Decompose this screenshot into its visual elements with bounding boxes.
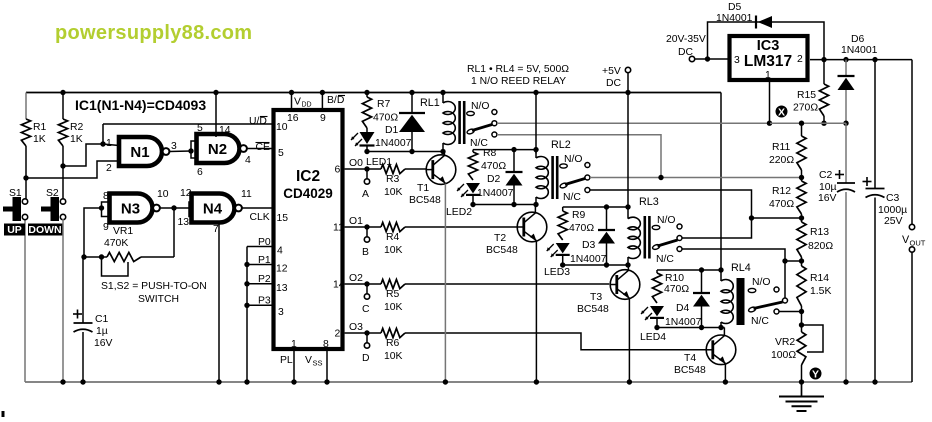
svg-text:470Ω: 470Ω: [569, 223, 594, 234]
stray mark bottom-left: [2, 411, 5, 417]
relay RL1 coil: [420, 93, 466, 152]
svg-text:5: 5: [278, 148, 284, 159]
svg-text:N/O: N/O: [752, 277, 770, 288]
relay RL4 contacts N/O N/C: [748, 277, 788, 327]
svg-text:N1: N1: [130, 144, 149, 161]
LED LED4: [640, 306, 666, 343]
svg-text:DD: DD: [302, 102, 312, 109]
svg-text:470Ω: 470Ω: [373, 113, 398, 124]
wire T1 collector to stage1 node: [443, 152, 445, 156]
svg-text:1 N/O REED RELAY: 1 N/O REED RELAY: [471, 76, 566, 87]
svg-text:N/O: N/O: [564, 154, 582, 165]
svg-text:2: 2: [106, 163, 112, 174]
wire S1 column to rail: [24, 219, 26, 382]
svg-text:1N4007: 1N4007: [375, 138, 412, 149]
svg-text:D1: D1: [385, 125, 399, 136]
svg-text:14: 14: [219, 125, 231, 136]
svg-text:13: 13: [276, 283, 288, 294]
pin 14 of N2 (IC1 VDD): [213, 90, 230, 137]
svg-text:11: 11: [333, 223, 344, 234]
svg-text:O3: O3: [349, 322, 363, 333]
svg-text:BC548: BC548: [409, 195, 441, 206]
wire T4 emitter to rail: [723, 364, 728, 385]
svg-text:2: 2: [797, 54, 803, 65]
resistor R9 470ohm: [558, 207, 594, 240]
svg-text:11: 11: [241, 189, 252, 200]
svg-text:DOWN: DOWN: [28, 224, 61, 236]
wire R5 to T3 base: [405, 283, 609, 285]
wire T2 emitter to rail: [534, 241, 539, 385]
wire +5V terminal feed to stage3 (RL3 top): [625, 93, 630, 219]
diode D5 1N4001: [708, 2, 825, 60]
svg-text:N/O: N/O: [471, 101, 489, 112]
relay RL1 contacts N/O N/C: [466, 101, 496, 149]
pins 5,6 bracket of N2: [188, 123, 203, 178]
wire RL4 N/C to R14/VR2 tap: [779, 311, 802, 313]
pin 4 of N2: [245, 155, 251, 166]
pin O2 14 of IC2 / terminal C / resistor R5: [333, 273, 405, 315]
wire VR1 right to N3 output node: [173, 208, 175, 257]
svg-text:BC548: BC548: [577, 304, 609, 315]
resistor R13 820ohm: [797, 218, 833, 264]
wire RL2 common to R11/R12 tap: [590, 175, 802, 180]
svg-text:SS: SS: [313, 359, 323, 368]
svg-text:R4: R4: [386, 232, 400, 243]
svg-text:C2: C2: [819, 170, 833, 181]
svg-text:IC3: IC3: [757, 38, 780, 54]
svg-text:IC2: IC2: [296, 168, 320, 185]
svg-text:T4: T4: [684, 353, 696, 364]
label RL1-RL4 relay note: [467, 64, 569, 87]
svg-text:470Ω: 470Ω: [664, 284, 689, 295]
wire stage4 bottom node: [657, 325, 725, 330]
svg-text:13: 13: [178, 217, 190, 228]
IC IC2 CD4029 box: [274, 110, 343, 349]
resistor R14 1.5K: [797, 261, 832, 314]
wire N4 output to IC2 CLK: [242, 207, 272, 209]
pin P2 13 of IC2: [244, 274, 287, 294]
svg-text:BC548: BC548: [674, 365, 706, 376]
svg-text:9: 9: [103, 222, 109, 233]
svg-text:R3: R3: [386, 174, 400, 185]
wire +5V rail right end to RL4 feed: [720, 93, 722, 271]
wire N1 pin1 to U/D line: [102, 124, 104, 144]
svg-text:LED4: LED4: [640, 332, 666, 343]
svg-text:C: C: [362, 304, 370, 315]
svg-text:R7: R7: [377, 99, 391, 110]
resistor R11 220ohm: [769, 123, 806, 180]
nand gate N4: [192, 194, 242, 223]
svg-text:powersupply88.com: powersupply88.com: [55, 22, 252, 44]
svg-text:6: 6: [197, 167, 203, 178]
svg-text:9: 9: [320, 113, 326, 124]
wire R3 to T1 base: [405, 168, 427, 170]
pin P3 3 of IC2: [244, 296, 284, 319]
resistor R2: [58, 119, 83, 146]
wire T1 emitter to rail: [443, 184, 448, 385]
svg-text:RL1 • RL4 = 5V, 500Ω: RL1 • RL4 = 5V, 500Ω: [467, 64, 569, 75]
svg-text:R15: R15: [797, 90, 816, 101]
svg-text:D4: D4: [676, 303, 690, 314]
wire left frame (R1 column top lead): [25, 93, 27, 120]
diode D2 1N4007: [477, 150, 523, 205]
svg-text:1K: 1K: [70, 134, 83, 145]
svg-text:O1: O1: [349, 216, 363, 227]
svg-text:R10: R10: [665, 273, 684, 284]
svg-text:4: 4: [245, 155, 251, 166]
svg-text:10K: 10K: [384, 245, 403, 256]
svg-text:10K: 10K: [384, 351, 403, 362]
diode D1 1N4007: [375, 93, 425, 152]
svg-text:1N4007: 1N4007: [665, 317, 702, 328]
wire stage3 top node: [563, 204, 628, 209]
svg-text:10µ: 10µ: [819, 182, 837, 193]
svg-text:VR1: VR1: [113, 226, 133, 237]
wire RL4 common up to R13/R14 tap: [784, 261, 786, 298]
transistor T3 BC548: [577, 270, 640, 315]
wire N1 output to N2 inputs: [169, 150, 191, 153]
svg-text:R2: R2: [70, 122, 84, 133]
svg-text:220Ω: 220Ω: [769, 155, 794, 166]
wire LED4 to stage4 node: [654, 319, 659, 330]
LED LED2: [446, 183, 480, 218]
svg-text:N2: N2: [208, 141, 227, 158]
svg-text:UP: UP: [7, 224, 22, 236]
svg-text:N4: N4: [203, 201, 223, 218]
wire T4 collector to stage4 node: [723, 328, 725, 336]
svg-text:A: A: [362, 189, 369, 200]
label IC1(N1-N4)=CD4093: [75, 97, 206, 113]
svg-text:N3: N3: [121, 201, 140, 218]
resistor R1: [21, 119, 46, 146]
svg-text:P1: P1: [258, 255, 271, 266]
wire LED1 to stage1 node: [364, 146, 369, 155]
svg-text:D5: D5: [728, 2, 742, 13]
pins 8,9 bracket of N3: [99, 191, 110, 233]
svg-text:RL4: RL4: [731, 262, 751, 274]
svg-text:C3: C3: [886, 193, 900, 204]
resistor R12 470ohm: [769, 178, 806, 221]
LED LED1: [351, 128, 392, 168]
resistor R15 270ohm: [793, 60, 829, 126]
svg-text:X: X: [778, 106, 785, 118]
wire P-pins bracket to rail: [244, 247, 249, 385]
capacitor C3 1000u 25V: [863, 60, 908, 385]
svg-text:1µ: 1µ: [96, 326, 108, 337]
diode D4 1N4007: [665, 270, 710, 328]
svg-text:CD4029: CD4029: [283, 186, 333, 201]
svg-text:U/D: U/D: [249, 116, 267, 127]
svg-text:10K: 10K: [384, 302, 403, 313]
svg-text:LED2: LED2: [446, 207, 472, 218]
svg-text:3: 3: [278, 307, 284, 318]
relay RL3 contacts N/O N/C: [652, 215, 682, 265]
svg-text:R14: R14: [810, 273, 829, 284]
pin 11 of N4: [241, 189, 252, 200]
svg-text:P3: P3: [258, 296, 271, 307]
wire N3 inputs to VR1/C1 node: [84, 208, 102, 257]
svg-text:N/C: N/C: [656, 254, 674, 265]
node X: [776, 106, 788, 119]
svg-text:2: 2: [335, 329, 341, 340]
pin P0 4 of IC2: [247, 237, 283, 257]
wire stage2 bottom node: [473, 202, 539, 207]
svg-text:S1,S2 = PUSH-TO-ON: S1,S2 = PUSH-TO-ON: [101, 281, 207, 292]
svg-text:1K: 1K: [33, 134, 46, 145]
wire R6 to T4 base: [405, 333, 707, 350]
pin 7 of N4 (IC1 ground): [213, 223, 222, 385]
ground symbol: [779, 382, 824, 411]
pin CLK 15 of IC2: [250, 212, 289, 224]
wire RL1 N/C to R11/R12 tap: [497, 135, 661, 178]
label S1,S2 = PUSH-TO-ON SWITCH: [101, 281, 207, 305]
wire R4 to T2 base: [405, 226, 518, 228]
svg-text:16V: 16V: [94, 338, 113, 349]
svg-text:R13: R13: [810, 227, 829, 238]
svg-text:N/O: N/O: [657, 215, 675, 226]
svg-text:3: 3: [734, 55, 740, 66]
svg-text:D: D: [362, 353, 370, 364]
svg-text:PL: PL: [280, 355, 293, 366]
capacitor C2 10u 16V: [818, 123, 855, 385]
svg-text:1N4001: 1N4001: [841, 45, 878, 56]
relay RL3 coil: [628, 196, 659, 265]
svg-text:270Ω: 270Ω: [793, 103, 818, 114]
svg-text:R6: R6: [386, 338, 400, 349]
pins 12,13 bracket of N4: [178, 188, 192, 228]
logo powersupply88.com: [55, 22, 252, 44]
svg-text:D6: D6: [851, 34, 865, 45]
svg-text:O0: O0: [349, 158, 363, 169]
pin P1 12 of IC2: [244, 255, 287, 275]
svg-text:1N4007: 1N4007: [570, 254, 607, 265]
svg-text:N/C: N/C: [751, 316, 769, 327]
svg-text:SWITCH: SWITCH: [138, 294, 179, 305]
svg-text:R12: R12: [772, 186, 791, 197]
svg-text:25V: 25V: [884, 216, 903, 227]
svg-text:1000µ: 1000µ: [878, 205, 907, 216]
pin O0 6 of IC2 / terminal A / resistor R3: [335, 158, 406, 200]
wire +5V feed to stage2 (RL2 top): [533, 90, 538, 154]
wire stage1 top connections: [364, 90, 445, 95]
svg-text:RL3: RL3: [639, 196, 659, 208]
pin O3 2 of IC2 / terminal D / resistor R6: [335, 322, 406, 364]
nand gate N1: [119, 137, 169, 166]
svg-text:R8: R8: [483, 148, 497, 159]
svg-text:12: 12: [180, 188, 192, 199]
node Y: [810, 368, 822, 381]
svg-text:O2: O2: [349, 273, 363, 284]
svg-text:3: 3: [171, 141, 177, 152]
wire R2-bottom to N1 pin1 jog: [63, 144, 103, 166]
relay RL2 coil: [536, 139, 571, 205]
svg-text:B/D: B/D: [327, 95, 344, 106]
svg-text:14: 14: [333, 280, 345, 291]
svg-text:6: 6: [335, 165, 341, 176]
resistor R10 470ohm: [652, 270, 689, 303]
svg-text:V: V: [294, 97, 301, 108]
pin Vss 8 of IC2: [305, 339, 330, 385]
wire stage3 bottom node: [563, 262, 631, 267]
potentiometer VR2 100ohm: [771, 312, 823, 385]
svg-text:20V-35V: 20V-35V: [666, 34, 706, 45]
svg-text:LED1: LED1: [366, 157, 392, 168]
wire LED2 to stage2 node: [470, 196, 475, 207]
svg-text:470Ω: 470Ω: [481, 161, 506, 172]
wire S2 column to rail: [60, 219, 65, 385]
terminal Vout: [902, 60, 926, 382]
wire R1-bottom to N1 pin2 jog: [26, 161, 119, 178]
svg-text:V: V: [305, 355, 312, 366]
wire N2 output to IC2 CE: [247, 148, 271, 150]
svg-text:1: 1: [106, 138, 112, 149]
svg-text:RL1: RL1: [420, 97, 440, 109]
wire R13/R14 tap to chain: [785, 260, 802, 262]
wire R2 top to rail: [60, 90, 65, 119]
wire bottom ground rail: [25, 381, 912, 383]
IC IC3 LM317: [730, 36, 808, 81]
svg-text:R5: R5: [386, 289, 400, 300]
resistor R7 470ohm: [362, 93, 398, 129]
label DOWN: [28, 224, 63, 237]
label UP: [4, 224, 25, 237]
LED LED3: [544, 243, 570, 278]
svg-text:10K: 10K: [384, 187, 403, 198]
wire RL1 common to node X rail: [497, 122, 770, 124]
pin 10 of N3: [157, 189, 169, 200]
pin 1 of N1: [100, 138, 119, 149]
wire N3 output to N4 inputs: [160, 205, 189, 210]
wire +5V top rail: [26, 92, 721, 94]
nand gate N3: [110, 194, 160, 223]
wire IC3 pin1 adj down to X rail: [767, 82, 772, 126]
pin 2 of N1: [106, 163, 112, 174]
wire IC3 pin2 output line: [810, 57, 912, 62]
svg-text:4: 4: [277, 246, 283, 257]
pin CE 5 of IC2: [256, 142, 285, 159]
svg-text:VR2: VR2: [775, 337, 795, 348]
wire RL3 common to R12/R13 tap: [682, 218, 802, 238]
svg-text:T1: T1: [417, 183, 429, 194]
svg-text:16V: 16V: [818, 193, 837, 204]
svg-text:16: 16: [287, 113, 299, 124]
wire X rail right segment: [770, 121, 846, 126]
svg-text:1: 1: [291, 339, 297, 350]
svg-text:IC1(N1-N4)=CD4093: IC1(N1-N4)=CD4093: [75, 97, 206, 113]
svg-text:CE: CE: [256, 142, 271, 153]
svg-text:R11: R11: [772, 142, 791, 153]
svg-text:RL2: RL2: [551, 139, 571, 151]
svg-text:N/C: N/C: [563, 192, 581, 203]
transistor T2 BC548: [486, 212, 547, 256]
wire R1 bottom to S1: [23, 146, 28, 199]
svg-text:B: B: [362, 247, 369, 258]
diode D6 1N4001: [838, 34, 878, 126]
wire LED3 to stage3 node: [560, 256, 565, 268]
wire T3 emitter to rail: [627, 299, 632, 385]
svg-text:1.5K: 1.5K: [810, 286, 831, 297]
wire RL3 N/C to R13/R14 tap: [682, 249, 788, 264]
pin O1 11 of IC2 / terminal B / resistor R4: [333, 216, 405, 258]
svg-text:D3: D3: [582, 240, 596, 251]
switch S1 (push-to-on): [3, 188, 28, 221]
wire stage1 bottom node: [367, 149, 446, 154]
svg-text:10: 10: [276, 122, 288, 133]
wire T2 collector to stage2 node: [534, 205, 536, 213]
relay RL4 coil: [721, 262, 751, 328]
nand gate N2: [197, 134, 247, 163]
pin 3 of N1: [171, 141, 177, 152]
relay RL2 contacts N/O N/C: [559, 154, 589, 203]
switch S2 (push-to-on): [41, 188, 66, 221]
resistor R8 470ohm: [468, 148, 506, 180]
svg-text:470K: 470K: [104, 238, 128, 249]
terminal 20V-35V DC input: [666, 34, 728, 62]
pin B/D 9 of IC2: [320, 90, 345, 124]
svg-text:8: 8: [103, 191, 109, 202]
svg-text:C1: C1: [95, 314, 109, 325]
svg-text:D2: D2: [487, 174, 501, 185]
svg-text:8: 8: [323, 339, 329, 350]
svg-text:T2: T2: [494, 233, 506, 244]
svg-text:12: 12: [276, 264, 288, 275]
svg-text:100Ω: 100Ω: [771, 350, 796, 361]
terminal +5V DC: [602, 66, 631, 95]
svg-text:DC: DC: [606, 78, 622, 89]
svg-text:R1: R1: [33, 122, 47, 133]
svg-text:7: 7: [213, 224, 219, 235]
svg-text:+5V: +5V: [602, 66, 621, 77]
svg-text:820Ω: 820Ω: [808, 241, 833, 252]
svg-text:P0: P0: [258, 237, 271, 248]
svg-text:BC548: BC548: [486, 245, 518, 256]
wire stage4 top node: [657, 267, 724, 272]
svg-text:15: 15: [277, 213, 289, 224]
pin VDD 16 of IC2: [287, 90, 312, 124]
svg-text:T3: T3: [590, 292, 602, 303]
wire R2 bottom to S2: [60, 146, 65, 199]
transistor T1 BC548: [409, 155, 456, 206]
svg-text:LED3: LED3: [544, 267, 570, 278]
svg-text:1N4007: 1N4007: [477, 188, 514, 199]
wire stage2 top node: [473, 147, 536, 152]
pin PL 1 of IC2: [280, 339, 297, 385]
svg-text:R9: R9: [572, 210, 586, 221]
svg-text:470Ω: 470Ω: [769, 199, 794, 210]
svg-text:P2: P2: [258, 274, 271, 285]
svg-text:LM317: LM317: [744, 53, 792, 70]
potentiometer VR1 470K: [81, 226, 174, 276]
wire T3 collector to stage3 node: [627, 265, 629, 271]
pin U/D 10 of IC2: [103, 116, 288, 133]
svg-text:1: 1: [765, 70, 771, 81]
svg-text:10: 10: [157, 189, 169, 200]
capacitor C1 1u 16V: [73, 257, 113, 385]
transistor T4 BC548: [674, 335, 736, 376]
wire RL2 N/C to R12/R13 tap: [590, 190, 754, 221]
svg-text:Y: Y: [812, 368, 819, 380]
diode D3 1N4007: [570, 207, 615, 265]
svg-text:CLK: CLK: [250, 212, 270, 223]
